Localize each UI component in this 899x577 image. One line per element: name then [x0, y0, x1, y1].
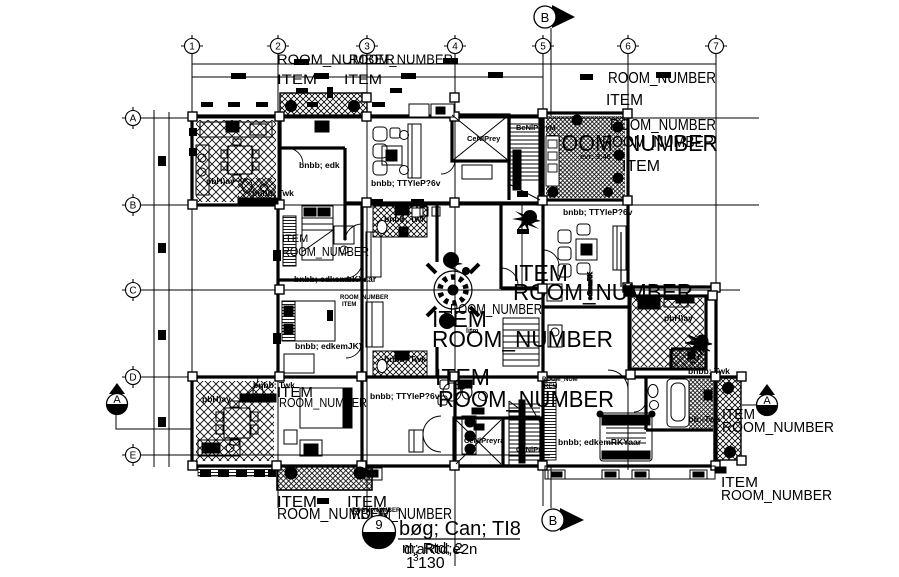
svg-text:ITEM: ITEM [342, 302, 356, 308]
svg-text:5: 5 [540, 42, 546, 53]
svg-text:B: B [130, 201, 137, 212]
svg-text:7: 7 [713, 42, 719, 53]
svg-text:evr; 9;46: evr; 9;46 [580, 152, 611, 161]
svg-text:1: 1 [189, 42, 195, 53]
wall junction/column markers [188, 93, 746, 470]
svg-text:pbH)ay: pbH)ay [206, 176, 235, 186]
porch squares bottom-left [200, 470, 276, 477]
svg-text:bnbb; TTYleP?6v: bnbb; TTYleP?6v [370, 391, 440, 401]
svg-text:pbH)ay: pbH)ay [202, 394, 231, 404]
svg-text:ITEM: ITEM [277, 71, 317, 87]
large ROOM_NUMBER/ITEM labels center [432, 130, 718, 412]
svg-text:bnbb; Twk: bnbb; Twk [252, 188, 294, 198]
porch step right of balcony [365, 430, 423, 480]
svg-text:ITEM: ITEM [622, 158, 660, 175]
window ticks room1 left wall [189, 128, 197, 156]
hall door frame marks [399, 207, 440, 236]
svg-text:4: 4 [452, 42, 458, 53]
core bath fixtures [458, 380, 488, 430]
kitchen room furniture top-left [196, 121, 329, 204]
kitchen fixtures right room [638, 297, 712, 363]
cabinets above living room [409, 104, 454, 117]
porch planters bottom-right [545, 466, 726, 479]
top dimension lines [192, 63, 716, 65]
svg-text:ROOM_NUMBER: ROOM_NUMBER [450, 301, 542, 318]
svg-text:C: C [129, 286, 136, 297]
hatched floor/balcony regions [196, 93, 741, 490]
svg-text:pbH)ay: pbH)ay [664, 313, 693, 323]
svg-text:130: 130 [418, 555, 445, 572]
ROOM_NUMBER/ITEM labels right [721, 406, 834, 504]
rotated tiny text [620, 232, 622, 287]
svg-text:litm: litm [466, 328, 478, 335]
svg-text:ROOM_NUMBER: ROOM_NUMBER [602, 134, 714, 151]
svg-text:A: A [113, 394, 121, 406]
grid bubbles left [122, 107, 144, 466]
section markers A and B [107, 5, 778, 531]
vertical grid 1..7 [191, 53, 193, 470]
svg-text:9: 9 [375, 517, 382, 532]
decorative fan motif center hall [427, 264, 479, 316]
wardrobe center corridor [503, 318, 539, 366]
svg-text:ROOM_NUMBER: ROOM_NUMBER [352, 508, 401, 514]
svg-text:bnbb; TTYleP?6v: bnbb; TTYleP?6v [371, 178, 441, 188]
bedroom beds left column [282, 206, 383, 444]
svg-text:ROOM_NUMBER: ROOM_NUMBER [610, 117, 716, 134]
ROOM_NUMBER/ITEM labels bottom [277, 494, 452, 523]
grid and dimension lines [116, 28, 759, 566]
svg-text:6: 6 [625, 42, 631, 53]
svg-text:ROOM_NUMBER: ROOM_NUMBER [722, 419, 834, 436]
grid bubbles top [181, 35, 727, 57]
title block: sheet 9, scale 1:130 [363, 516, 521, 573]
svg-text:ROOM_NUMBER: ROOM_NUMBER [349, 51, 453, 67]
svg-text:E: E [130, 451, 137, 462]
wardrobe strip along core wall [544, 380, 712, 460]
svg-text:edkemRK: edkemRK [588, 272, 594, 300]
svg-text:bnbb; edk: bnbb; edk [299, 160, 340, 170]
svg-text:A: A [763, 395, 771, 407]
svg-text:B: B [549, 513, 558, 528]
living room furniture right [547, 224, 626, 347]
corridor details [501, 191, 547, 293]
sofa set bottom middle room [423, 380, 476, 454]
door swing arcs [240, 148, 646, 412]
center bathrooms [373, 206, 427, 376]
elevator and stairs top core [452, 115, 540, 200]
svg-text:ITEM: ITEM [606, 92, 643, 109]
svg-text:B: B [541, 10, 550, 25]
building walls [192, 113, 742, 466]
svg-text:ROOM_NUMBER: ROOM_NUMBER [279, 395, 367, 410]
svg-text:bnbb; edkemJK}: bnbb; edkemJK} [295, 341, 363, 351]
svg-text:D: D [129, 373, 136, 384]
svg-text:bnbb; TTYleP?6v: bnbb; TTYleP?6v [563, 207, 633, 217]
svg-text:A: A [130, 114, 137, 125]
bathroom with bathtub bottom-right [648, 379, 689, 427]
section B line top [550, 28, 552, 116]
living room furniture top [373, 124, 421, 178]
double bed bottom-right bedroom [597, 411, 655, 461]
dark planter blobs on hatches [285, 100, 737, 480]
left dimension vertical [153, 110, 155, 467]
railing planters terrace room [546, 136, 559, 186]
svg-text:bøg; Can; TI8: bøg; Can; TI8 [399, 518, 521, 540]
horizontal grid A..E [140, 117, 759, 119]
dimension tick marks [158, 58, 671, 427]
elevator and stairs bottom core [456, 400, 541, 466]
A marker leader lines [116, 414, 192, 429]
svg-text:bnbb; edkembKYaar: bnbb; edkembKYaar [294, 274, 377, 284]
svg-text:ITEM: ITEM [344, 71, 382, 87]
svg-text:ROOM_NUMBER: ROOM_NUMBER [340, 295, 389, 301]
svg-text:bnbb; Twk: bnbb; Twk [688, 366, 730, 376]
small room name labels [202, 160, 730, 447]
svg-text:ROOM_NUMBER: ROOM_NUMBER [721, 487, 832, 504]
dining table bottom-left room [198, 385, 322, 456]
svg-text:ROOM_NUMBER: ROOM_NUMBER [608, 70, 716, 87]
ROOM_NUMBER/ITEM labels top [277, 51, 453, 87]
